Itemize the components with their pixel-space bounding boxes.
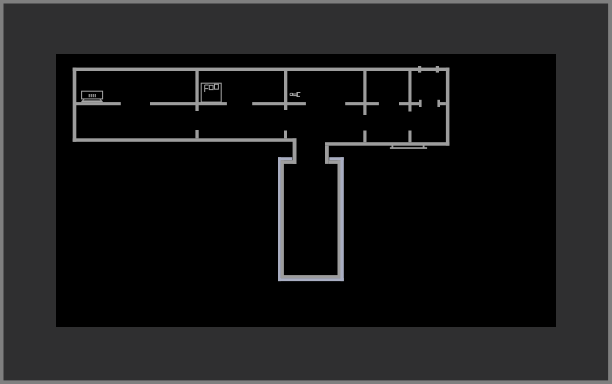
stairwell gray lining right vertical — [338, 160, 341, 278]
desk base pedestal right foot — [99, 99, 101, 100]
stove symbol outline in room 2 — [201, 83, 221, 102]
porch line below right bottom wall — [390, 147, 427, 149]
wall stub at bottom wall under W3 — [363, 131, 366, 143]
stairwell gray lining bottom — [281, 275, 341, 278]
door jamb tick at end of segment 5 — [419, 100, 422, 107]
porch tick right below right bottom wall — [423, 145, 425, 148]
wall: interior vertical W4 — [408, 71, 411, 112]
wall stub from jamb to right wall — [440, 102, 446, 105]
wall stub at bottom wall under W2 — [284, 131, 287, 139]
wall: left outer — [73, 68, 77, 142]
window tick 1 on top wall — [418, 66, 421, 73]
wall: interior horizontal segment 2 — [150, 102, 227, 105]
stairwell gray lining top strip right — [329, 160, 341, 164]
desk tick 1 — [89, 94, 90, 97]
stairwell light wall left vertical — [278, 157, 281, 281]
desk base pedestal left foot — [82, 99, 84, 100]
stair jog gray right vertical — [325, 146, 329, 164]
desk tick 4 — [95, 94, 96, 97]
wall: interior horizontal segment 1 — [76, 102, 121, 105]
wall: bottom outer left section — [73, 138, 297, 142]
drawing canvas — [56, 54, 556, 327]
wall: top outer — [73, 68, 450, 71]
stairwell light wall bottom — [278, 278, 344, 281]
window tick 2 on top wall — [436, 66, 439, 73]
wall: bottom outer right section — [325, 142, 449, 146]
stair jog gray left vertical — [293, 138, 297, 164]
desk base plate — [81, 100, 103, 102]
porch tick left below right bottom wall — [392, 145, 394, 148]
wall stub at bottom wall under W4 — [408, 131, 411, 143]
wall: interior vertical W1 — [195, 71, 198, 111]
stairwell gray lining left vertical — [281, 160, 284, 278]
stairwell light wall right vertical — [341, 157, 344, 281]
stove F glyph — [205, 85, 209, 92]
wall: interior vertical W3 — [363, 71, 366, 115]
wall stub at bottom wall under W1 — [195, 130, 198, 138]
desk tick 3 — [93, 94, 94, 97]
wall: interior horizontal segment 5 — [399, 102, 421, 105]
wall: interior horizontal segment 3 — [252, 102, 306, 105]
wall: interior horizontal segment 4 — [345, 102, 379, 105]
stairwell gray lining top strip left — [281, 160, 297, 164]
desk tick 2 — [91, 94, 92, 97]
stove burner 2 — [215, 84, 219, 89]
wall: right outer — [446, 68, 450, 146]
door jamb tick near right wall — [437, 100, 440, 107]
stairwell light wall right shoulder — [329, 157, 344, 160]
stove burner 1 — [209, 85, 213, 89]
key symbol in room 3 — [290, 92, 301, 97]
wall: interior vertical W2 — [284, 71, 287, 110]
stairwell light wall left shoulder — [278, 157, 292, 160]
desk symbol outline in room 1 — [82, 91, 103, 99]
